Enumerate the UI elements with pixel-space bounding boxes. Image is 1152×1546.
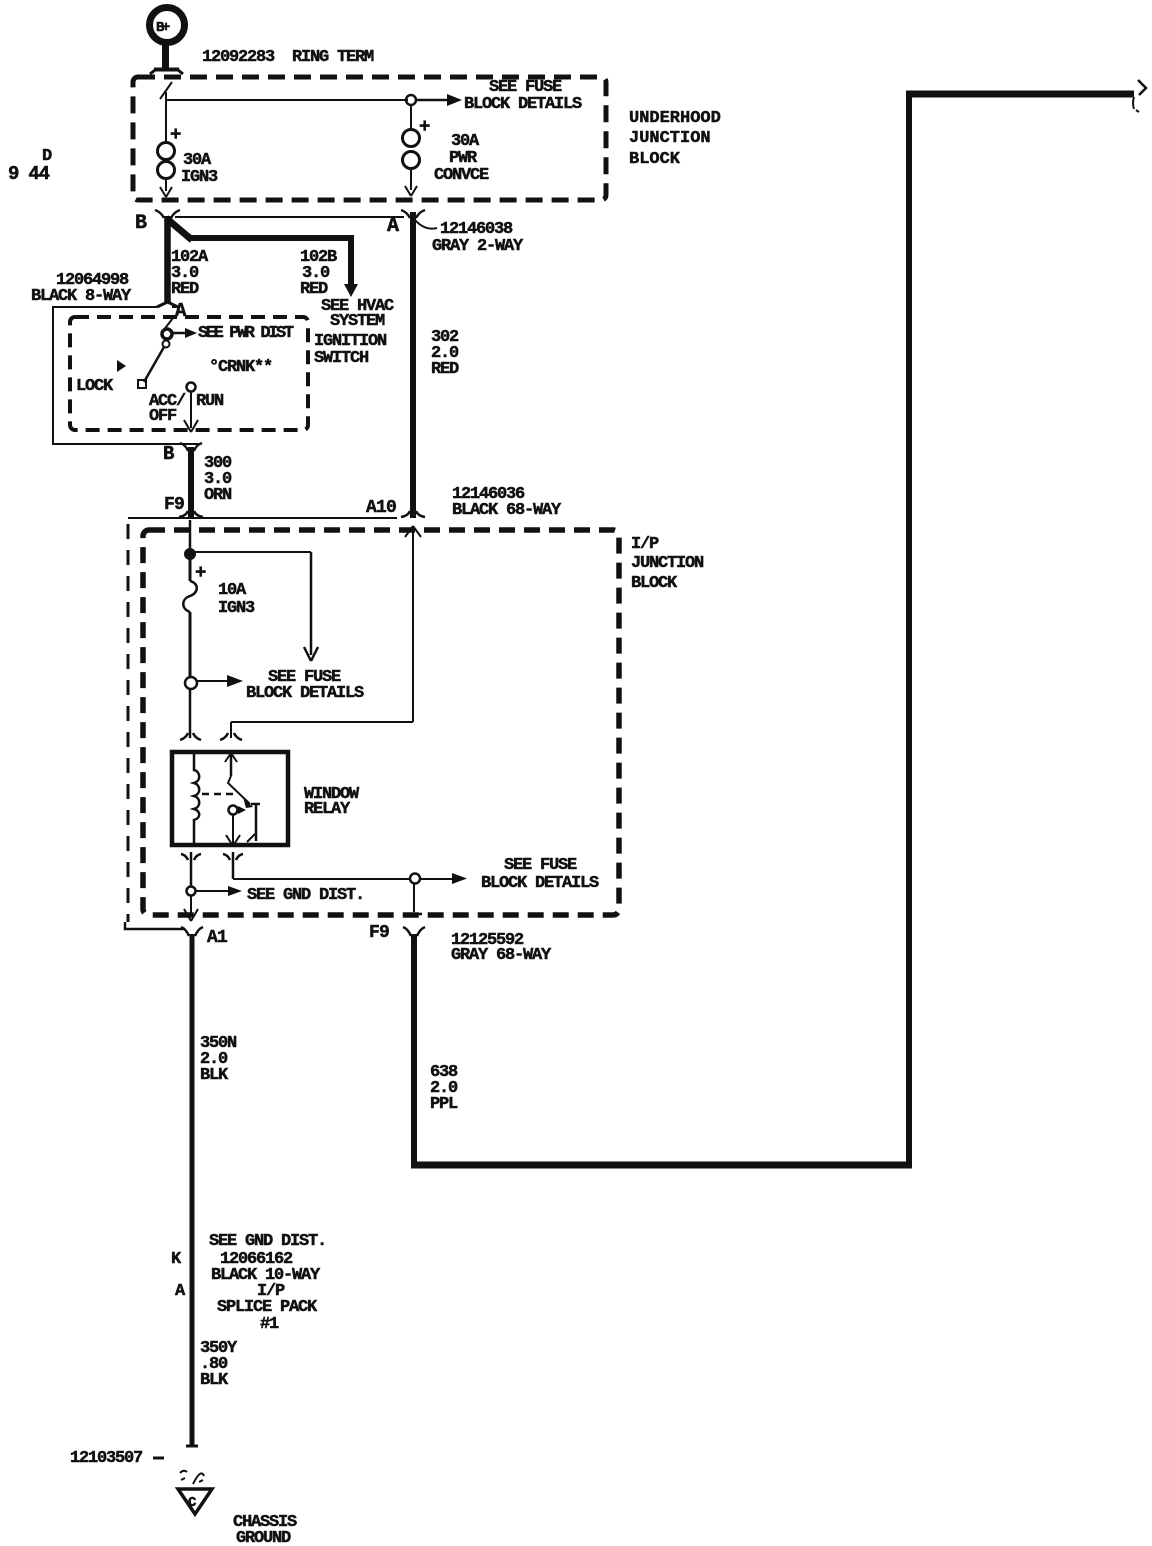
svg-text:RING TERM: RING TERM bbox=[292, 48, 374, 67]
svg-text:F9: F9 bbox=[369, 923, 389, 943]
svg-text:GRAY 2-WAY: GRAY 2-WAY bbox=[432, 237, 524, 256]
svg-text:SEE FUSE: SEE FUSE bbox=[504, 856, 577, 875]
svg-text:B: B bbox=[163, 443, 174, 465]
svg-text:RELAY: RELAY bbox=[304, 800, 351, 819]
svg-text:SEE GND DIST.: SEE GND DIST. bbox=[247, 886, 364, 905]
svg-text:10A: 10A bbox=[218, 581, 247, 600]
svg-text:RUN: RUN bbox=[196, 392, 224, 411]
svg-text:B+: B+ bbox=[156, 20, 170, 36]
svg-text:+: + bbox=[419, 116, 430, 138]
svg-text:SEE PWR DIST: SEE PWR DIST bbox=[198, 324, 294, 343]
svg-text:GROUND: GROUND bbox=[236, 1529, 291, 1546]
svg-text:BLOCK: BLOCK bbox=[629, 150, 681, 169]
svg-text:IGN3: IGN3 bbox=[181, 168, 218, 187]
svg-text:SWITCH: SWITCH bbox=[314, 349, 369, 368]
svg-text:I/P: I/P bbox=[631, 535, 659, 554]
svg-text:BLACK 68-WAY: BLACK 68-WAY bbox=[452, 501, 562, 520]
svg-text:BLK: BLK bbox=[200, 1066, 229, 1085]
svg-text:9 44: 9 44 bbox=[8, 163, 50, 185]
svg-text:F9: F9 bbox=[164, 495, 184, 515]
svg-text:+: + bbox=[195, 562, 206, 584]
svg-text:A10: A10 bbox=[366, 498, 396, 518]
svg-text:+: + bbox=[170, 124, 181, 146]
svg-text:UNDERHOOD: UNDERHOOD bbox=[629, 109, 721, 128]
svg-text:°CRNK**: °CRNK** bbox=[209, 358, 272, 377]
svg-text:A1: A1 bbox=[207, 928, 228, 948]
svg-text:JUNCTION: JUNCTION bbox=[629, 129, 711, 148]
svg-text:A: A bbox=[387, 215, 399, 238]
svg-text:BLOCK DETAILS: BLOCK DETAILS bbox=[246, 684, 364, 703]
svg-text:C: C bbox=[188, 1495, 197, 1511]
svg-text:BLK: BLK bbox=[200, 1371, 229, 1390]
svg-text:A: A bbox=[175, 1282, 186, 1301]
svg-text:BLOCK DETAILS: BLOCK DETAILS bbox=[464, 95, 582, 114]
svg-text:BLACK 8-WAY: BLACK 8-WAY bbox=[31, 287, 132, 306]
svg-text:A: A bbox=[175, 300, 187, 322]
svg-text:B: B bbox=[135, 212, 147, 235]
svg-text:RED: RED bbox=[431, 360, 459, 379]
svg-text:BLOCK DETAILS: BLOCK DETAILS bbox=[481, 874, 599, 893]
svg-text:12103507: 12103507 bbox=[70, 1449, 143, 1468]
svg-text:ORN: ORN bbox=[204, 486, 232, 505]
svg-text:IGN3: IGN3 bbox=[218, 599, 255, 618]
svg-text:#1: #1 bbox=[260, 1315, 279, 1334]
svg-text:PPL: PPL bbox=[430, 1095, 458, 1114]
svg-text:RED: RED bbox=[171, 280, 199, 299]
svg-text:LOCK: LOCK bbox=[76, 377, 114, 396]
svg-text:12092283: 12092283 bbox=[202, 48, 275, 67]
svg-text:GRAY 68-WAY: GRAY 68-WAY bbox=[451, 946, 552, 965]
svg-text:JUNCTION: JUNCTION bbox=[631, 554, 704, 573]
svg-text:K: K bbox=[171, 1250, 182, 1269]
svg-text:SEE GND DIST.: SEE GND DIST. bbox=[209, 1232, 326, 1251]
svg-text:SYSTEM: SYSTEM bbox=[330, 312, 385, 331]
svg-text:OFF: OFF bbox=[149, 407, 177, 426]
svg-text:CONVCE: CONVCE bbox=[434, 166, 489, 185]
svg-text:BLOCK: BLOCK bbox=[631, 574, 678, 593]
